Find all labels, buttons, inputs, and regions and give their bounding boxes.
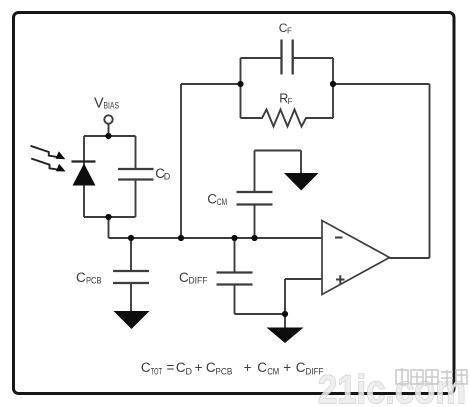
wire photodiode box bottom edge xyxy=(84,216,136,218)
label CPCB xyxy=(76,270,102,286)
wire ground branch vertical (CCM) xyxy=(300,151,302,174)
value label CTOT equation xyxy=(141,360,324,377)
wire feedback return top horizontal xyxy=(333,83,430,85)
node junction dot (loop left) xyxy=(237,81,243,87)
ground (CCM branch) xyxy=(284,173,319,191)
ground (CPCB) xyxy=(114,311,150,329)
svg-text:C: C xyxy=(257,360,267,375)
capacitor CF plates xyxy=(282,40,293,75)
wire CDIFF bottom horizontal to junction xyxy=(235,313,286,315)
node junction dot (ground junction) xyxy=(282,311,288,317)
wire feedback loop right vertical xyxy=(332,58,334,118)
svg-text:C: C xyxy=(296,360,306,375)
light arrow 1 xyxy=(31,146,66,159)
svg-text:D: D xyxy=(164,172,171,182)
op-amp plus pin symbol xyxy=(336,275,345,284)
capacitor CDIFF upper lead xyxy=(234,238,236,273)
wire VBIAS terminal to photodiode box top xyxy=(108,124,110,136)
node junction dot (loop right) xyxy=(330,81,336,87)
wire photodiode box right edge lower (from CD bottom plate) xyxy=(135,180,137,218)
wire photodiode box bottom to input node line xyxy=(108,217,110,238)
wire CCM upper lead xyxy=(254,151,256,193)
wire CDIFF lower lead xyxy=(234,285,236,315)
svg-text:DIFF: DIFF xyxy=(189,276,208,286)
svg-text:C: C xyxy=(179,270,189,285)
svg-text:CM: CM xyxy=(217,197,228,207)
svg-text:+: + xyxy=(283,360,291,375)
wire feedback loop top right (from CF) xyxy=(293,57,333,59)
label CD xyxy=(155,166,171,182)
svg-text:BIAS: BIAS xyxy=(104,101,120,111)
wire CCM lower lead to node xyxy=(254,205,256,239)
svg-text:21ic.com: 21ic.com xyxy=(318,368,466,407)
label VBIAS xyxy=(94,96,119,112)
svg-text:PCB: PCB xyxy=(215,367,232,377)
wire photodiode box top edge xyxy=(84,135,136,137)
node junction dot (feedback tap) xyxy=(178,235,184,241)
svg-text:V: V xyxy=(94,96,104,112)
capacitor CPCB lead upper xyxy=(130,238,132,271)
wire noninverting input horizontal xyxy=(285,278,322,280)
label CF xyxy=(279,21,292,36)
watermark CJK blocks (decorative) xyxy=(396,368,467,386)
ground (CDIFF / noninverting) xyxy=(267,328,304,344)
svg-text:C: C xyxy=(206,360,216,375)
svg-text:C: C xyxy=(176,360,186,375)
capacitor CD plates xyxy=(118,169,154,180)
wire photodiode box left edge xyxy=(83,136,85,217)
wire op-amp output xyxy=(390,257,430,259)
op-amp U1 triangle xyxy=(322,221,390,295)
wire feedback tap horizontal xyxy=(181,83,241,85)
wire inverting input node line xyxy=(109,237,323,239)
node junction dot (CDIFF tap) xyxy=(231,235,237,241)
op-amp minus pin symbol xyxy=(335,237,343,239)
wire feedback tap vertical (node to feedback network) xyxy=(180,84,182,238)
capacitor CPCB plates xyxy=(113,271,149,283)
wire CPCB to ground xyxy=(130,283,132,312)
wire feedback loop top left (to CF) xyxy=(241,57,282,59)
svg-text:TOT: TOT xyxy=(151,367,163,377)
wire photodiode box right edge upper (to CD top plate) xyxy=(135,136,137,169)
svg-text:CM: CM xyxy=(267,367,279,377)
capacitor CDIFF plates xyxy=(217,273,253,285)
wire CCM top horizontal to ground branch xyxy=(255,150,302,152)
node junction dot (box bottom) xyxy=(105,214,111,220)
light arrow 2 xyxy=(31,159,65,172)
label CDIFF xyxy=(179,270,208,286)
svg-text:PCB: PCB xyxy=(86,276,102,286)
node junction dot (CCM tap) xyxy=(251,235,257,241)
label RF xyxy=(279,91,292,106)
svg-text:C: C xyxy=(141,360,151,375)
node junction dot (box top) xyxy=(105,133,111,139)
svg-text:=: = xyxy=(167,360,175,375)
wire noninverting riser xyxy=(284,279,286,314)
wire junction to ground (CDIFF) xyxy=(284,314,286,328)
node VBIAS terminal xyxy=(104,115,112,123)
wire feedback loop left vertical xyxy=(240,58,242,118)
label CCM xyxy=(207,192,227,208)
node junction dot (CPCB tap) xyxy=(128,235,134,241)
svg-text:C: C xyxy=(76,270,86,285)
photodiode D1 triangle xyxy=(73,164,96,186)
resistor RF zigzag xyxy=(241,110,334,127)
svg-text:D: D xyxy=(186,367,193,377)
svg-text:F: F xyxy=(288,97,293,106)
svg-text:+: + xyxy=(195,360,203,375)
svg-text:+: + xyxy=(244,360,252,375)
svg-text:F: F xyxy=(287,27,292,36)
wire feedback return right vertical xyxy=(429,84,431,258)
photodiode D1 cathode bar xyxy=(72,160,96,162)
capacitor CCM plates xyxy=(237,192,273,205)
